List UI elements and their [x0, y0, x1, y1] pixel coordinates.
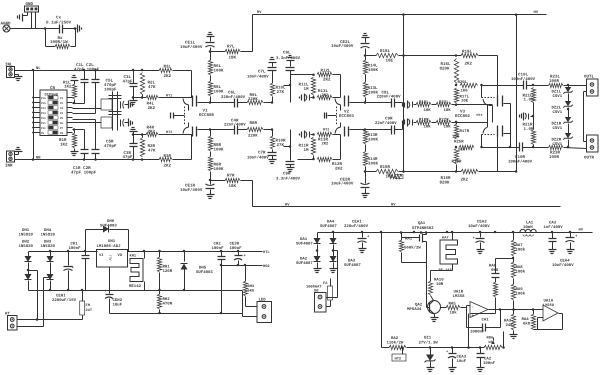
capacitor ref mid	[528, 114, 530, 120]
svg-text:C7R: C7R	[258, 151, 266, 156]
svg-text:100uF: 100uF	[230, 246, 243, 251]
svg-text:R3R: R3R	[164, 154, 172, 159]
capacitor CE3H	[238, 252, 240, 256]
svg-text:C3L: C3L	[124, 75, 132, 80]
svg-text:10uF/400V: 10uF/400V	[180, 188, 203, 193]
wire QA1 source	[426, 242, 428, 308]
diode DH3	[47, 274, 54, 280]
svg-text:CA3: CA3	[549, 221, 557, 226]
svg-text:10uF/400V: 10uF/400V	[331, 44, 354, 49]
svg-text:1N5820: 1N5820	[19, 233, 34, 238]
regulator UH1 LM1086-ADJ	[97, 250, 128, 268]
resistor R11L	[311, 77, 315, 95]
diode DA3	[330, 256, 337, 262]
resistor R18R	[416, 120, 431, 124]
svg-text:220K: 220K	[248, 97, 258, 102]
connector GND	[25, 6, 39, 12]
svg-text:R19R: R19R	[452, 160, 462, 165]
svg-text:CSV1: CSV1	[553, 110, 563, 115]
svg-text:MT2: MT2	[323, 128, 329, 133]
capacitor C1L	[84, 71, 86, 80]
trimmer lower	[120, 120, 122, 127]
resistor RH1	[159, 252, 161, 258]
svg-text:R18R: R18R	[419, 117, 429, 122]
wire AC2	[18, 326, 44, 328]
svg-text:C6L: C6L	[228, 91, 236, 96]
svg-text:UA1A: UA1A	[544, 299, 554, 304]
svg-text:10K: 10K	[488, 340, 495, 345]
svg-text:P3: P3	[60, 107, 64, 110]
svg-text:-: -	[472, 306, 474, 310]
svg-text:100K: 100K	[368, 68, 378, 73]
svg-text:C7L: C7L	[258, 70, 266, 75]
HV raw rail	[318, 232, 593, 234]
resistor R14L	[365, 56, 367, 61]
svg-text:R25R: R25R	[454, 140, 464, 145]
zobel C7L R10L	[269, 62, 277, 64]
svg-text:CEA3: CEA3	[457, 355, 467, 360]
svg-text:R5R: R5R	[214, 143, 222, 148]
svg-text:C1L C2L: C1L C2L	[76, 63, 94, 68]
svg-text:R19L: R19L	[462, 49, 472, 54]
svg-text:DH2: DH2	[22, 240, 30, 245]
resistor R2L	[141, 69, 144, 72]
resistor R2R	[141, 158, 144, 161]
svg-text:KH1: KH1	[130, 254, 137, 259]
svg-text:R14R: R14R	[368, 157, 378, 162]
resistor R13Lb	[365, 75, 367, 83]
ground	[133, 98, 135, 101]
resistor R23R	[549, 145, 564, 149]
svg-text:CEA1: CEA1	[352, 220, 362, 225]
svg-text:UA1B: UA1B	[454, 290, 464, 295]
wire V3 grid lower	[481, 135, 483, 148]
svg-text:1N5820: 1N5820	[41, 244, 56, 249]
resistor R9L	[238, 102, 248, 104]
svg-text:CH2: CH2	[214, 242, 222, 247]
capacitor C2R	[95, 154, 97, 160]
capacitor C8R	[366, 129, 392, 131]
svg-text:RH3: RH3	[248, 284, 255, 289]
wire bottom input rail y159.5	[15, 159, 160, 161]
wire heater 0V bus	[110, 313, 243, 315]
svg-text:10uF/400V: 10uF/400V	[468, 224, 490, 229]
net HT2	[402, 348, 404, 355]
resistor R21L	[531, 88, 535, 103]
svg-text:10mH: 10mH	[523, 225, 533, 230]
svg-text:R7R: R7R	[227, 174, 235, 179]
svg-text:DZ1: DZ1	[424, 336, 432, 341]
svg-text:100nF: 100nF	[69, 246, 82, 251]
svg-text:110k/2W: 110k/2W	[387, 341, 404, 346]
svg-text:5K6: 5K6	[248, 288, 255, 293]
resistor R6R	[210, 172, 212, 181]
svg-text:27V/1.3W: 27V/1.3W	[419, 341, 439, 346]
svg-text:RH1: RH1	[163, 265, 171, 270]
capacitor C10R	[519, 143, 521, 152]
capacitor CE1R	[207, 194, 215, 196]
zener DZ2R	[565, 133, 572, 138]
svg-text:R14L: R14L	[368, 64, 378, 69]
svg-text:10nF/400V: 10nF/400V	[247, 155, 269, 160]
svg-text:2K2: 2K2	[164, 163, 172, 168]
wire noninv ref	[468, 314, 470, 348]
wire	[527, 85, 549, 87]
capacitor C6L	[211, 102, 235, 104]
wire heater out rail2	[222, 265, 263, 267]
wire DH6 bypass riser	[85, 230, 87, 252]
svg-text:STP4NK60Z: STP4NK60Z	[412, 226, 434, 231]
svg-text:1N5820: 1N5820	[19, 244, 34, 249]
svg-text:SUF4003: SUF4003	[100, 224, 117, 229]
svg-text:47K: 47K	[148, 85, 156, 90]
resistor R4L	[146, 95, 158, 99]
capacitor C4R	[211, 129, 235, 131]
svg-text:10uF/400V: 10uF/400V	[180, 45, 203, 50]
svg-text:DH3: DH3	[44, 240, 52, 245]
opamp UA1A	[543, 305, 558, 321]
wire fb tap	[496, 258, 514, 260]
wire stage2 loop upper	[340, 75, 342, 98]
resistor R13R	[317, 132, 332, 136]
ground	[133, 132, 135, 135]
connector INL	[7, 67, 15, 78]
svg-text:R11R: R11R	[299, 144, 309, 149]
svg-text:6k8: 6k8	[523, 322, 531, 327]
svg-text:RA3: RA3	[504, 319, 512, 324]
diode DH4	[50, 252, 52, 257]
svg-text:V2: V2	[344, 110, 349, 115]
wire	[510, 104, 512, 148]
tube V3 lower triode	[497, 126, 499, 137]
svg-text:V3: V3	[460, 110, 465, 115]
svg-text:P8: P8	[60, 132, 64, 135]
svg-text:Cx: Cx	[56, 16, 62, 21]
svg-text:R17R: R17R	[460, 129, 470, 134]
switch row P9/P8	[34, 132, 41, 134]
svg-text:P16: P16	[41, 97, 46, 100]
switch row P11/P6	[34, 122, 41, 124]
capacitor CA3	[552, 233, 554, 239]
svg-text:120R: 120R	[163, 269, 173, 274]
resistor R1L	[71, 80, 79, 82]
resistor R6L	[210, 52, 212, 61]
svg-text:INR: INR	[5, 164, 13, 169]
tube V1 envelope	[184, 107, 186, 126]
ground	[15, 154, 19, 156]
svg-text:10uF/400V: 10uF/400V	[552, 263, 574, 268]
svg-text:HO2: HO2	[263, 264, 270, 269]
svg-text:2AT: 2AT	[86, 308, 93, 313]
svg-text:RE-1S5: RE-1S5	[439, 268, 453, 273]
capacitor CE2L	[362, 37, 370, 39]
connector HT	[8, 316, 18, 331]
svg-text:RA8: RA8	[516, 265, 524, 270]
connector OUTL	[587, 79, 599, 96]
switch row P10/P7	[34, 127, 41, 129]
svg-text:P6: P6	[60, 122, 64, 125]
svg-text:OUTR: OUTR	[584, 156, 594, 161]
svg-text:DH6: DH6	[107, 219, 115, 224]
tube V3 ECC802 upper triode	[497, 96, 499, 107]
resistor R22L	[432, 104, 437, 106]
capacitor C3L	[132, 69, 135, 72]
relay KA7	[452, 233, 454, 241]
diode DH5	[184, 252, 186, 262]
resistor RA5	[441, 307, 447, 309]
svg-text:P11: P11	[41, 122, 46, 125]
node NL	[32, 69, 35, 72]
capacitor grid ref lower	[412, 120, 414, 126]
capacitor CA1 feedback	[466, 308, 468, 328]
svg-text:RA9: RA9	[516, 287, 524, 292]
wire dip to caps lower	[73, 129, 85, 131]
svg-text:ECC803: ECC803	[339, 114, 354, 119]
svg-text:R2R: R2R	[148, 144, 156, 149]
svg-text:18K: 18K	[229, 56, 237, 61]
tube V2 envelope	[336, 107, 338, 126]
wire dip to caps	[73, 103, 85, 105]
svg-text:100K: 100K	[368, 138, 378, 143]
svg-text:R13L: R13L	[368, 86, 378, 91]
wire LED return	[243, 316, 258, 318]
diode DH6	[86, 229, 104, 231]
svg-text:10K: 10K	[424, 108, 432, 113]
svg-text:INL: INL	[5, 63, 13, 68]
wire top input rail y70	[15, 70, 160, 72]
svg-text:LM1086-ADJ: LM1086-ADJ	[97, 244, 121, 249]
svg-text:CE1L: CE1L	[185, 41, 195, 46]
svg-text:HV: HV	[579, 228, 584, 233]
svg-text:CEA2: CEA2	[477, 220, 487, 225]
svg-text:R16R: R16R	[441, 176, 451, 181]
svg-text:100nF: 100nF	[212, 246, 225, 251]
resistor R17R	[456, 123, 458, 125]
resistor R24R	[388, 174, 402, 178]
svg-text:10: 10	[387, 172, 391, 177]
svg-text:R7L: R7L	[227, 45, 235, 50]
resistor R8R	[238, 129, 248, 131]
wire stage2 loop lower	[340, 135, 342, 160]
svg-text:FH: FH	[86, 303, 90, 308]
capacitor CEH1	[68, 252, 70, 266]
svg-text:RH2: RH2	[163, 297, 171, 302]
svg-text:47pF 100pF: 47pF 100pF	[71, 171, 97, 176]
svg-text:2K2: 2K2	[322, 142, 330, 147]
svg-text:P15: P15	[41, 102, 46, 105]
svg-text:560k/2W: 560k/2W	[404, 246, 421, 251]
resistor RA2	[389, 345, 406, 349]
svg-text:47pF: 47pF	[123, 155, 133, 160]
svg-text:820K: 820K	[440, 181, 450, 186]
switch row P13/P4	[34, 112, 41, 114]
svg-text:1M: 1M	[304, 87, 309, 92]
resistor R22R	[432, 122, 437, 124]
capacitor C10L	[523, 81, 525, 90]
resistor R17L	[454, 88, 458, 103]
diode DA2	[314, 256, 321, 262]
opamp UA1B	[470, 302, 488, 318]
switch row P16/P1	[34, 97, 41, 99]
svg-text:47pF: 47pF	[123, 79, 133, 84]
svg-text:R18L: R18L	[419, 100, 429, 105]
svg-text:SUF4007: SUF4007	[296, 241, 313, 246]
svg-text:P12: P12	[41, 117, 46, 120]
resistor R23L	[549, 83, 564, 87]
svg-text:100K: 100K	[214, 90, 224, 95]
svg-text:1000nF: 1000nF	[470, 330, 485, 335]
svg-text:2200uF/16V: 2200uF/16V	[52, 298, 77, 303]
svg-text:27K: 27K	[277, 143, 285, 148]
svg-text:R2L: R2L	[148, 81, 156, 86]
svg-text:R1R: R1R	[59, 138, 67, 143]
svg-text:1K2: 1K2	[64, 85, 72, 90]
svg-text:DA3: DA3	[348, 259, 356, 264]
svg-text:1.0M: 1.0M	[524, 98, 534, 103]
resistor R19L	[457, 55, 462, 57]
wire B+ riser mid	[403, 15, 405, 172]
svg-text:ADJ: ADJ	[109, 255, 113, 261]
svg-text:SUF4007: SUF4007	[320, 224, 337, 229]
svg-text:CSV1: CSV1	[553, 126, 563, 131]
svg-text:R11L: R11L	[299, 83, 309, 88]
svg-text:24k: 24k	[506, 323, 514, 328]
connector OUTR	[587, 135, 599, 152]
svg-text:10k: 10k	[450, 310, 458, 315]
svg-text:P1: P1	[60, 97, 64, 100]
zobel C7R R10R	[272, 130, 274, 137]
wire heater rail raw	[29, 251, 98, 253]
wire out return	[584, 91, 587, 93]
svg-text:10K: 10K	[452, 135, 460, 140]
svg-text:10nF/400V: 10nF/400V	[247, 74, 269, 79]
svg-text:R22L: R22L	[439, 100, 449, 105]
diode DH1	[28, 252, 30, 257]
capacitor CEA3	[452, 348, 454, 354]
wire heater out HTL	[97, 251, 98, 253]
svg-text:C4R: C4R	[231, 118, 239, 123]
capacitor CE1L	[207, 36, 215, 38]
tube V2 lower triode	[344, 127, 346, 137]
svg-text:1K6: 1K6	[461, 89, 469, 94]
wire	[63, 28, 77, 30]
svg-text:DH1: DH1	[22, 228, 30, 233]
wire	[27, 13, 29, 16]
svg-text:NR: NR	[36, 156, 41, 161]
resistor R1R	[74, 130, 76, 134]
node NR	[32, 158, 35, 161]
svg-text:100nF: 100nF	[483, 361, 496, 366]
svg-text:10uF: 10uF	[457, 359, 467, 364]
svg-text:18K: 18K	[229, 184, 237, 189]
wire	[31, 13, 33, 29]
zener DZ1L	[568, 86, 570, 88]
svg-text:CSV1: CSV1	[553, 94, 563, 99]
wire	[10, 28, 60, 30]
resistor R5R	[210, 152, 212, 157]
svg-text:C5R: C5R	[106, 140, 114, 145]
svg-text:R15R: R15R	[380, 165, 390, 170]
wire input select bus	[33, 71, 35, 160]
svg-text:VI: VI	[99, 253, 103, 258]
capacitor CH2	[221, 252, 223, 257]
resistor R13L	[317, 95, 332, 99]
svg-text:HV: HV	[257, 10, 262, 15]
svg-text:10E: 10E	[386, 59, 394, 64]
capacitor CEA2	[480, 233, 482, 238]
svg-text:SUF4003: SUF4003	[196, 270, 213, 275]
resistor R4R	[146, 132, 158, 136]
svg-text:220K: 220K	[248, 134, 258, 139]
capacitor C2L	[95, 71, 97, 80]
capacitor CEH2	[106, 294, 114, 296]
svg-text:100pF: 100pF	[104, 88, 117, 93]
capacitor grid bypass upper	[309, 95, 311, 101]
resistor RH2	[159, 291, 161, 295]
tube V2 ECC803 upper triode	[344, 96, 346, 107]
resistor R25R	[459, 145, 474, 149]
svg-text:HT: HT	[5, 312, 10, 317]
svg-text:CA1: CA1	[482, 318, 490, 323]
resistor R14R	[365, 167, 367, 172]
svg-text:UH1: UH1	[108, 239, 116, 244]
svg-text:1K2: 1K2	[60, 143, 68, 148]
svg-text:CE1R: CE1R	[185, 184, 195, 189]
ground	[431, 317, 439, 319]
wire grid upper	[134, 97, 147, 99]
svg-text:2K2: 2K2	[323, 78, 331, 83]
wire B+ riser right	[516, 15, 518, 172]
capacitor Cx	[59, 25, 61, 34]
wire raw HV drop	[381, 233, 383, 348]
resistor R16R	[454, 149, 458, 165]
resistor R11R	[311, 137, 315, 155]
wire HV riser left bottom	[252, 181, 254, 207]
resistor R19R	[457, 171, 462, 173]
svg-text:RA5: RA5	[449, 302, 457, 307]
capacitor C8L	[366, 102, 392, 104]
resistor RA1	[401, 233, 403, 241]
svg-text:1.0M: 1.0M	[524, 127, 534, 132]
svg-text:HV: HV	[391, 202, 396, 207]
wire opamp out	[489, 309, 542, 311]
svg-text:P7: P7	[60, 127, 64, 130]
svg-text:P2: P2	[60, 102, 64, 105]
terminal AGND	[3, 25, 10, 32]
ground	[128, 119, 130, 127]
svg-text:22nF/400V: 22nF/400V	[375, 121, 397, 126]
svg-text:R10R: R10R	[276, 139, 286, 144]
svg-text:V1: V1	[203, 109, 208, 114]
svg-text:P10: P10	[41, 127, 46, 130]
wire trim network upper	[101, 99, 112, 110]
switch row P12/P5	[34, 117, 41, 119]
wire B+ feed lower	[404, 171, 457, 173]
svg-text:CK1: CK1	[71, 242, 79, 247]
svg-text:1000mAT: 1000mAT	[306, 284, 322, 289]
resistor RA10	[430, 271, 432, 282]
wire output lower	[482, 147, 520, 149]
ground	[77, 25, 79, 33]
transistor QA2 MPSA44	[428, 301, 441, 314]
switch CN DIPSW8	[40, 90, 67, 136]
resistor RA4	[533, 310, 535, 315]
svg-text:QA1: QA1	[418, 221, 426, 226]
wire	[523, 147, 549, 149]
svg-text:100k: 100k	[516, 292, 526, 297]
svg-text:R8R: R8R	[250, 121, 258, 126]
svg-text:2K2: 2K2	[322, 93, 330, 98]
